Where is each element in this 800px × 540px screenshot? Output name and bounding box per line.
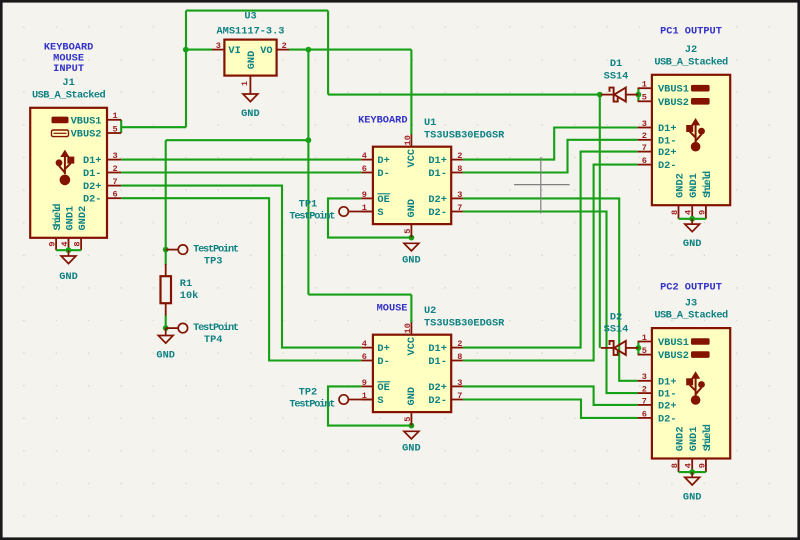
wire VBUS top horizontal (186, 10, 328, 12)
svg-text:D+: D+ (377, 155, 389, 167)
node D1 output junction (636, 92, 642, 98)
node TP4 junction (163, 325, 169, 331)
connector J2 labels (654, 44, 728, 68)
svg-text:Shield: Shield (702, 424, 714, 451)
node U2 GND junction (409, 423, 415, 429)
svg-text:GND2: GND2 (77, 206, 89, 231)
node D2 output junction (636, 345, 642, 351)
svg-text:3: 3 (642, 372, 647, 382)
svg-text:J1: J1 (62, 77, 74, 89)
wire MS D- : J1 D2- to U2 D- (121, 198, 361, 360)
mux U1 body TS3USB30EDGSR (361, 134, 463, 237)
svg-text:D2-: D2- (428, 395, 447, 407)
testpoint TP1 (339, 207, 373, 216)
wire U2 D1- to J2 pin 6 (463, 165, 638, 361)
connector J3 ground bracket (679, 469, 706, 477)
svg-text:D1-: D1- (658, 389, 677, 401)
testpoint TP4 (166, 323, 188, 332)
svg-text:USB_A_Stacked: USB_A_Stacked (654, 56, 728, 68)
svg-text:8: 8 (670, 463, 680, 468)
svg-text:D1-: D1- (428, 168, 447, 180)
svg-text:MOUSE: MOUSE (377, 303, 408, 315)
svg-text:D-: D- (377, 168, 389, 180)
svg-text:USB_A_Stacked: USB_A_Stacked (32, 89, 106, 101)
svg-text:VCC: VCC (406, 337, 418, 356)
connector J1 ground bracket (56, 247, 81, 256)
svg-text:GND1: GND1 (65, 206, 77, 231)
svg-text:7: 7 (642, 143, 647, 153)
svg-text:AMS1117-3.3: AMS1117-3.3 (217, 26, 285, 38)
svg-text:R1: R1 (180, 278, 192, 290)
node D1 input junction (597, 92, 603, 98)
svg-text:7: 7 (457, 391, 462, 401)
svg-text:7: 7 (642, 396, 647, 406)
ground symbol under J1 (59, 256, 78, 283)
svg-text:S: S (377, 207, 383, 219)
wire U1 D1+ to J2 pin 3 (463, 128, 638, 160)
connector J1 USB icon (56, 150, 75, 186)
ground symbol under J2 (683, 224, 702, 250)
svg-text:USB_A_Stacked: USB_A_Stacked (654, 310, 728, 322)
diode D1 labels (604, 58, 629, 82)
svg-text:GND: GND (406, 387, 418, 406)
svg-text:3: 3 (457, 190, 462, 200)
svg-text:TP4: TP4 (204, 334, 223, 346)
svg-text:6: 6 (642, 409, 647, 419)
svg-text:2: 2 (457, 339, 462, 349)
svg-text:3: 3 (642, 119, 647, 129)
svg-text:OE: OE (377, 382, 389, 394)
svg-text:GND2: GND2 (675, 173, 687, 198)
svg-text:TP3: TP3 (204, 256, 223, 268)
cursor crosshair horizontal (514, 184, 570, 186)
svg-text:2: 2 (642, 131, 647, 141)
wire U3 VI stub connection (186, 49, 212, 51)
svg-text:5: 5 (403, 417, 413, 422)
svg-text:2: 2 (457, 151, 462, 161)
wire D1 bracket to J2 pins 1/5 (637, 88, 639, 101)
connector J2 ground bracket (679, 216, 706, 224)
diode D1 SS14 (601, 88, 639, 102)
wire 3V3 down to U1 VCC (410, 50, 412, 135)
ground symbol under J3 (683, 477, 702, 503)
svg-text:D2-: D2- (83, 194, 102, 206)
mux U2 body TS3USB30EDGSR (361, 322, 463, 425)
svg-text:TS3USB30EDGSR: TS3USB30EDGSR (424, 129, 505, 141)
wire MS D+ : J1 D2+ to U2 D+ (121, 186, 361, 348)
svg-text:GND1: GND1 (688, 173, 700, 198)
connector J1 labels (32, 42, 106, 102)
wire U2 OE to GND (328, 386, 411, 425)
svg-text:VBUS2: VBUS2 (658, 350, 689, 362)
svg-text:D2+: D2+ (658, 400, 677, 412)
testpoint TP3 labels (193, 244, 239, 268)
svg-text:D1+: D1+ (428, 343, 447, 355)
wire VBUS horizontal to D1 cathode (328, 94, 600, 96)
testpoint TP3 (166, 245, 188, 254)
wire 3V3: U3 VO to U1 VCC riser (289, 49, 411, 51)
connector J1 body USB_A_Stacked (30, 108, 121, 250)
svg-text:GND: GND (683, 491, 702, 503)
svg-text:GND1: GND1 (688, 426, 700, 451)
svg-text:9: 9 (697, 210, 707, 215)
svg-text:10: 10 (403, 135, 413, 145)
diode D2 SS14 (601, 341, 639, 355)
svg-text:6: 6 (113, 190, 118, 200)
svg-text:9: 9 (362, 378, 367, 388)
svg-text:J3: J3 (685, 298, 697, 310)
svg-text:10: 10 (403, 323, 413, 333)
wire VBUS riser up left side (185, 11, 187, 128)
svg-text:VI: VI (228, 45, 240, 57)
testpoint TP4 labels (193, 322, 239, 346)
ground symbol under U1 (402, 243, 421, 266)
svg-text:PC1 OUTPUT: PC1 OUTPUT (660, 26, 722, 38)
svg-text:3: 3 (216, 41, 221, 51)
svg-text:U1: U1 (424, 117, 436, 129)
svg-text:TestPoint: TestPoint (289, 398, 335, 410)
svg-text:GND: GND (683, 238, 702, 250)
testpoint TP1 labels (289, 199, 335, 223)
svg-text:4: 4 (362, 151, 367, 161)
wire 3V3 branch left to R1 (166, 139, 309, 141)
svg-text:2: 2 (642, 385, 647, 395)
svg-text:D2+: D2+ (658, 147, 677, 159)
node U1 GND junction (409, 235, 415, 241)
node 3V3 junction at VO (306, 47, 312, 53)
svg-text:OE: OE (377, 194, 389, 206)
svg-text:D2-: D2- (658, 413, 677, 425)
connector J2 USB icon (686, 118, 705, 152)
svg-text:GND: GND (402, 443, 421, 455)
cursor crosshair vertical (540, 157, 542, 213)
regulator U3 labels (217, 11, 285, 38)
svg-text:2: 2 (113, 164, 118, 174)
svg-text:GND: GND (406, 199, 418, 218)
svg-text:VBUS1: VBUS1 (71, 115, 102, 127)
svg-text:6: 6 (362, 352, 367, 362)
svg-text:8: 8 (73, 241, 83, 246)
connector J3 labels (654, 298, 728, 322)
testpoint TP2 labels (289, 387, 335, 411)
svg-text:INPUT: INPUT (53, 63, 84, 75)
svg-text:1: 1 (642, 80, 647, 90)
wire 3V3 vertical trunk (307, 50, 309, 295)
wire U1 OE to GND (328, 198, 411, 237)
svg-text:3: 3 (113, 151, 118, 161)
svg-text:D1+: D1+ (658, 376, 677, 388)
node 3V3 junction to R1 branch (306, 137, 312, 143)
wire U2 D1+ to J2 pin 7 (463, 152, 638, 348)
svg-text:9: 9 (697, 463, 707, 468)
svg-text:VBUS1: VBUS1 (658, 84, 689, 96)
wire 3V3 down to TP3/R1 (165, 140, 167, 249)
ground symbol under TP4 (156, 328, 175, 362)
svg-text:Shield: Shield (702, 171, 714, 198)
testpoint TP2 (339, 395, 373, 404)
svg-text:U2: U2 (424, 305, 436, 317)
svg-text:D1+: D1+ (428, 155, 447, 167)
svg-text:VBUS2: VBUS2 (71, 129, 102, 141)
svg-text:D2+: D2+ (83, 181, 102, 193)
svg-text:Shield: Shield (52, 204, 64, 231)
svg-text:10k: 10k (180, 290, 199, 302)
wire U2 D2+ to J3 pin 7 (463, 386, 638, 405)
svg-text:TestPoint: TestPoint (289, 210, 335, 222)
diode D2 labels (604, 311, 629, 335)
svg-text:GND: GND (246, 51, 258, 70)
svg-text:D2+: D2+ (428, 382, 447, 394)
svg-text:1: 1 (642, 333, 647, 343)
svg-text:8: 8 (457, 164, 462, 174)
svg-text:5: 5 (642, 346, 647, 356)
svg-text:VBUS2: VBUS2 (658, 97, 689, 109)
svg-text:VO: VO (260, 45, 272, 57)
resistor R1 10k (161, 264, 172, 315)
wire U1 D2+ to J3 pin 3 (463, 198, 638, 380)
wire 3V3 down to U2 VCC (410, 295, 412, 323)
svg-text:PC2 OUTPUT: PC2 OUTPUT (660, 282, 722, 294)
wire KB D- : J1 D1- to U1 D- (121, 171, 361, 173)
svg-text:1: 1 (240, 81, 250, 86)
svg-text:3: 3 (457, 378, 462, 388)
wire KB D+ : J1 D1+ to U1 D+ (121, 159, 361, 161)
mux U1 labels (424, 117, 505, 141)
svg-text:D1-: D1- (658, 135, 677, 147)
connector J2 body USB_A_Stacked (638, 75, 731, 219)
wire VBUS down to D1 row (327, 11, 329, 95)
svg-text:5: 5 (642, 93, 647, 103)
svg-text:2: 2 (282, 41, 287, 51)
svg-text:KEYBOARD: KEYBOARD (358, 115, 407, 127)
svg-text:GND: GND (156, 350, 175, 362)
wire U1 D2- to J3 pin 2 (463, 212, 638, 394)
svg-text:D+: D+ (377, 343, 389, 355)
svg-text:1: 1 (113, 111, 118, 121)
wire VBUS vertical D1 junction down to D2 cathode (599, 95, 601, 348)
svg-text:D1-: D1- (83, 168, 102, 180)
svg-text:D2: D2 (610, 311, 622, 323)
svg-text:9: 9 (48, 241, 58, 246)
svg-text:7: 7 (457, 203, 462, 213)
svg-text:D2+: D2+ (428, 194, 447, 206)
svg-text:U3: U3 (244, 11, 256, 23)
svg-text:D1-: D1- (428, 356, 447, 368)
wire 3V3 over to U2 VCC (308, 294, 411, 296)
svg-text:VBUS1: VBUS1 (658, 337, 689, 349)
svg-text:D2-: D2- (428, 207, 447, 219)
regulator U3 body AMS1117-3.3 (212, 40, 289, 94)
svg-text:TP1: TP1 (299, 199, 318, 211)
svg-text:GND: GND (402, 255, 421, 267)
svg-text:TP2: TP2 (299, 387, 318, 399)
svg-text:J2: J2 (685, 44, 697, 56)
svg-text:5: 5 (113, 124, 118, 134)
ground symbol under U3 (241, 94, 260, 120)
svg-text:GND: GND (59, 271, 78, 283)
svg-text:7: 7 (113, 177, 118, 187)
svg-text:SS14: SS14 (604, 70, 629, 82)
wire U1 D1- to J2 pin 2 (463, 140, 638, 173)
svg-text:8: 8 (457, 352, 462, 362)
svg-text:6: 6 (642, 156, 647, 166)
wire R1 bottom to TP4 (165, 315, 167, 329)
svg-text:4: 4 (362, 339, 367, 349)
wire U2 D2- to J3 pin 6 (463, 400, 638, 418)
wire TP3 to R1 top (165, 250, 167, 265)
svg-text:VCC: VCC (406, 149, 418, 168)
svg-text:S: S (377, 395, 383, 407)
wire D2 bracket to J3 pins 1/5 (637, 342, 639, 355)
svg-text:D-: D- (377, 356, 389, 368)
svg-text:SS14: SS14 (604, 324, 629, 336)
svg-text:D2-: D2- (658, 160, 677, 172)
svg-text:TS3USB30EDGSR: TS3USB30EDGSR (424, 317, 505, 329)
node TP3 junction (163, 247, 169, 253)
svg-text:6: 6 (362, 164, 367, 174)
svg-text:5: 5 (403, 229, 413, 234)
resistor R1 labels (180, 278, 199, 302)
node VI junction (183, 47, 189, 53)
svg-text:GND: GND (241, 108, 260, 120)
svg-text:TestPoint: TestPoint (193, 244, 239, 256)
svg-text:8: 8 (670, 210, 680, 215)
connector J3 body USB_A_Stacked (638, 328, 731, 472)
svg-text:GND2: GND2 (675, 426, 687, 451)
svg-text:TestPoint: TestPoint (193, 322, 239, 334)
connector J3 USB icon (686, 371, 705, 405)
svg-text:D1: D1 (610, 58, 622, 70)
svg-text:4: 4 (684, 463, 694, 468)
svg-text:D1+: D1+ (658, 123, 677, 135)
svg-text:D1+: D1+ (83, 155, 102, 167)
mux U2 labels (424, 305, 505, 329)
wire VBUS: J1 pins 1/5 bracket to vertical riser (120, 120, 122, 133)
svg-text:9: 9 (362, 190, 367, 200)
ground symbol under U2 (402, 431, 421, 454)
svg-text:4: 4 (684, 210, 694, 215)
svg-text:4: 4 (60, 241, 70, 246)
